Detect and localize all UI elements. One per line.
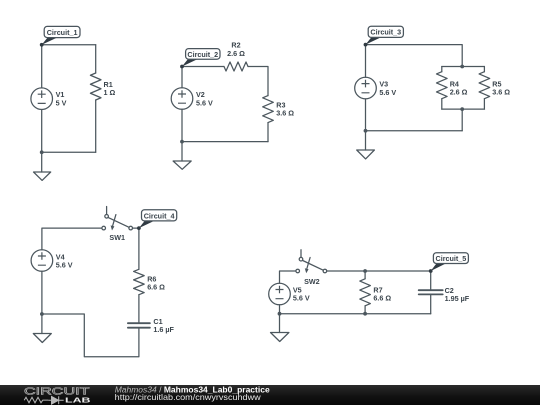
node Circuit_3 flag xyxy=(364,26,404,46)
wire: R7 bottom lead xyxy=(364,306,366,314)
wire: C3 top horizontal xyxy=(366,45,463,67)
wire: node down to R6 xyxy=(138,228,140,269)
footer text xyxy=(115,384,270,402)
junction: C1 bottom-left node xyxy=(40,150,44,154)
svg-text:1.6 µF: 1.6 µF xyxy=(153,325,174,334)
wire: V1 bottom to bottom rail xyxy=(41,110,43,153)
ground: circuit 2 xyxy=(173,142,191,170)
wire: V4 bottom to ground node xyxy=(41,271,43,314)
switch SW1 xyxy=(102,207,133,231)
svg-text:5 V: 5 V xyxy=(56,98,67,107)
resistor R5 3.6 Ohm xyxy=(479,72,490,99)
wire: V2 bottom to bottom rail xyxy=(181,109,183,141)
wire: R1 top lead xyxy=(95,45,97,73)
wire: SW2 to C2 node xyxy=(327,270,431,272)
wire: C1 left vertical (node to V1 top) xyxy=(41,45,43,88)
junction: C2 bottom node xyxy=(180,140,184,144)
footer bar xyxy=(0,384,540,405)
svg-text:SW1: SW1 xyxy=(109,233,125,242)
svg-text:5.6 V: 5.6 V xyxy=(293,294,310,303)
wire: R5 top lead xyxy=(483,67,485,72)
voltage source V5 5.6 V xyxy=(269,283,291,305)
voltage source V1 5 V xyxy=(31,88,53,110)
capacitor C2 1.95 uF xyxy=(419,290,443,294)
svg-text:Circuit_5: Circuit_5 xyxy=(436,254,467,263)
svg-text:R2: R2 xyxy=(231,40,240,49)
svg-text:Circuit_2: Circuit_2 xyxy=(187,50,218,59)
svg-text:5.6 V: 5.6 V xyxy=(379,88,396,97)
wire: C1 bottom horizontal xyxy=(42,151,96,153)
svg-text:1.95 µF: 1.95 µF xyxy=(445,294,470,303)
wire: R7 top lead xyxy=(364,271,366,279)
node Circuit_1 flag xyxy=(40,26,80,46)
junction: V5 bottom node xyxy=(278,312,282,316)
junction: R7 top node xyxy=(363,269,367,273)
svg-text:6.6 Ω: 6.6 Ω xyxy=(373,293,391,302)
wire: R5 bottom lead xyxy=(483,99,485,109)
svg-text:Circuit_3: Circuit_3 xyxy=(370,28,401,37)
wire: V5 top to switch xyxy=(280,271,297,283)
wire: C2 top left segment xyxy=(182,66,224,68)
wire: C2 top lead xyxy=(430,271,432,290)
ground: circuit 3 xyxy=(357,131,375,159)
wire: R3 bottom lead xyxy=(267,123,269,142)
voltage source V4 5.6 V xyxy=(31,250,53,272)
wire: node to V3 top xyxy=(365,45,367,78)
capacitor C1 1.6 uF xyxy=(128,323,150,328)
svg-text:5.6 V: 5.6 V xyxy=(196,99,213,108)
resistor R1 1 Ohm xyxy=(90,73,101,100)
svg-text:2.6 Ω: 2.6 Ω xyxy=(227,49,245,58)
svg-text:http://circuitlab.com/cnwyrvsc: http://circuitlab.com/cnwyrvscuhdww xyxy=(115,392,262,402)
svg-text:2.6 Ω: 2.6 Ω xyxy=(450,87,468,96)
wire: SW1 to node xyxy=(133,227,139,229)
node Circuit_5 flag xyxy=(429,253,469,273)
svg-text:LAB: LAB xyxy=(65,396,91,405)
wire: parallel bottom to bottom rail xyxy=(461,109,463,131)
wire: V4 top to switch xyxy=(42,228,102,250)
svg-text:Circuit_4: Circuit_4 xyxy=(144,211,175,220)
svg-text:3.6 Ω: 3.6 Ω xyxy=(492,87,510,96)
wire: V5 bottom to bottom rail xyxy=(279,305,281,314)
junction: V4 bottom node xyxy=(40,312,44,316)
ground: circuit 5 xyxy=(271,314,289,342)
svg-text:Circuit_1: Circuit_1 xyxy=(47,28,78,37)
wire: C5 bottom horizontal xyxy=(280,313,431,315)
wire: parallel bottom rail xyxy=(442,108,485,110)
junction: parallel bottom center xyxy=(460,107,464,111)
wire: C2 bottom lead xyxy=(430,294,432,313)
resistor R4 2.6 Ohm xyxy=(437,72,448,99)
wire: R1 bottom lead xyxy=(95,100,97,152)
wire: R6 to C1 xyxy=(138,295,140,324)
wire: R4 bottom lead xyxy=(441,99,443,109)
svg-text:5.6 V: 5.6 V xyxy=(56,261,73,270)
svg-text:SW2: SW2 xyxy=(304,277,320,286)
junction: C3 bottom node xyxy=(364,129,368,133)
svg-text:1 Ω: 1 Ω xyxy=(104,88,116,97)
wire: C2 bottom horizontal xyxy=(182,141,268,143)
wire: R2 to top-right corner and down xyxy=(248,67,268,96)
voltage source V2 5.6 V xyxy=(171,88,193,110)
switch SW2 xyxy=(296,250,327,274)
resistor R3 3.6 Ohm xyxy=(263,96,274,123)
wire: V3 bottom to bottom rail xyxy=(365,99,367,131)
wire: node to V2 top xyxy=(181,67,183,88)
voltage source V3 5.6 V xyxy=(355,77,377,99)
wire: C3 bottom horizontal xyxy=(366,130,463,132)
ground: circuit 1 xyxy=(34,152,51,180)
node Circuit_2 flag xyxy=(180,49,220,69)
junction: R7 bottom node xyxy=(363,312,367,316)
resistor R2 2.6 Ohm xyxy=(224,62,248,71)
schematic text labels xyxy=(47,28,511,334)
resistor R7 6.6 Ohm xyxy=(360,279,371,306)
wire: R4 top lead xyxy=(441,67,443,72)
svg-text:6.6 Ω: 6.6 Ω xyxy=(147,282,165,291)
CircuitLab logo xyxy=(24,387,91,405)
wire: C1 bottom loop back to ground node xyxy=(42,314,139,357)
svg-text:3.6 Ω: 3.6 Ω xyxy=(276,109,294,118)
wire: C1 top horizontal xyxy=(42,44,96,46)
junction: parallel top center xyxy=(460,65,464,69)
ground: circuit 4 xyxy=(33,314,51,343)
wire: parallel top rail xyxy=(442,66,485,68)
resistor R6 6.6 Ohm xyxy=(134,269,145,294)
node Circuit_4 flag xyxy=(137,210,177,230)
